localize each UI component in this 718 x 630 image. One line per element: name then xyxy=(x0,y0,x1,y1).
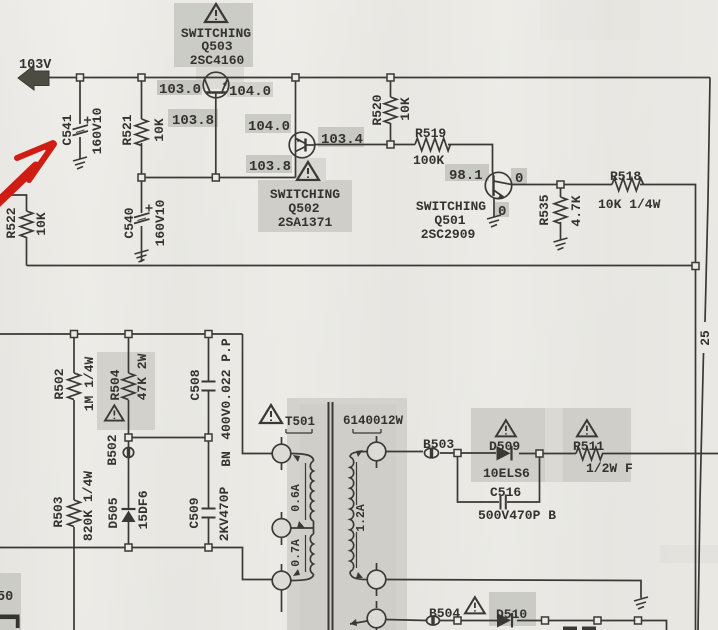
svg-text:R518: R518 xyxy=(610,169,641,184)
wire S3 stub xyxy=(350,621,367,624)
wire left input to R522 xyxy=(0,195,27,211)
wire B502 link y=437.5 xyxy=(129,437,209,439)
highlight box 103.8 (upper) xyxy=(168,109,218,127)
highlight box Q503 label xyxy=(174,3,253,67)
highlight box 103.0 xyxy=(157,80,202,95)
wire R521 branch top xyxy=(141,78,143,120)
node y334 at C508 xyxy=(205,331,212,338)
svg-text:Q503: Q503 xyxy=(201,39,232,54)
ground (R535) xyxy=(554,238,568,250)
svg-text:0: 0 xyxy=(498,204,506,220)
wire R504/D505 column xyxy=(128,334,130,373)
ground (C541) xyxy=(73,157,87,169)
svg-text:D509: D509 xyxy=(489,439,520,454)
transistor Q501 xyxy=(485,172,511,199)
svg-text:47K 2W: 47K 2W xyxy=(135,353,150,400)
wire S2 to ground xyxy=(386,580,641,599)
svg-text:10K: 10K xyxy=(34,212,49,236)
highlight box D510 xyxy=(489,592,536,626)
warning triangle (T501) xyxy=(260,405,282,423)
highlight box 103.4 xyxy=(318,127,364,147)
highlight box D509 / R511 xyxy=(471,408,631,482)
svg-text:820K 1/4W: 820K 1/4W xyxy=(81,471,96,541)
wire Q503 base lead xyxy=(215,98,217,178)
svg-text:10K: 10K xyxy=(152,118,167,142)
wire horizontal y=334 xyxy=(0,333,243,335)
diode D505 xyxy=(122,509,136,522)
node D510 right 2 xyxy=(594,617,601,624)
svg-text:C516: C516 xyxy=(490,485,521,500)
capacitor C541 (polarized) xyxy=(73,117,92,136)
resistor R535 xyxy=(554,197,567,224)
highlight box 104.0 (right of Q503) xyxy=(227,82,273,97)
pin P3 xyxy=(272,571,291,590)
node D509/C516 xyxy=(536,450,543,457)
wire Q502 collector lead xyxy=(295,78,297,134)
svg-text:103.4: 103.4 xyxy=(321,132,363,148)
svg-text:0: 0 xyxy=(515,171,523,187)
wire top rail 103V/104V xyxy=(48,77,710,79)
wire R520 stubs xyxy=(390,78,392,98)
pin S3 xyxy=(367,609,386,628)
wire long horizontal y=265.5 xyxy=(27,265,696,267)
highlight box 104.0 (Q502) xyxy=(245,114,291,133)
svg-text:0.7A: 0.7A xyxy=(290,539,303,567)
secondary winding (1.2A) xyxy=(350,452,367,458)
resistor R504 xyxy=(122,373,135,400)
node R520/R519 junction xyxy=(387,141,394,148)
svg-text:1.2A: 1.2A xyxy=(355,504,368,532)
node y547 at D505 xyxy=(125,544,132,551)
node Q503 base junction xyxy=(212,174,219,181)
node B503/C516 xyxy=(454,450,461,457)
svg-text:SWITCHING: SWITCHING xyxy=(416,199,486,214)
svg-text:Q502: Q502 xyxy=(288,201,319,216)
svg-text:0.6A: 0.6A xyxy=(290,484,303,512)
svg-text:2SC2909: 2SC2909 xyxy=(421,227,476,242)
node right bus junction xyxy=(692,263,699,270)
svg-text:100K: 100K xyxy=(413,153,444,168)
svg-text:R504: R504 xyxy=(108,369,123,400)
core xyxy=(328,402,330,630)
wire C540 branch xyxy=(141,178,143,214)
resistor R502 xyxy=(68,373,81,400)
wire R519 to Q501 base xyxy=(448,145,493,173)
svg-text:BN: BN xyxy=(219,451,234,467)
svg-text:R511: R511 xyxy=(573,439,604,454)
node y334 at R502 xyxy=(71,331,78,338)
svg-text:R522: R522 xyxy=(4,207,19,238)
node y437 at B502 xyxy=(125,434,132,441)
svg-text:103.0: 103.0 xyxy=(159,82,201,98)
svg-text:R520: R520 xyxy=(370,94,385,125)
svg-text:R502: R502 xyxy=(52,368,67,399)
red annotation arrow xyxy=(0,141,56,216)
svg-text:103.8: 103.8 xyxy=(172,113,214,129)
svg-text:D505: D505 xyxy=(106,497,121,528)
wire R502/R503 column xyxy=(73,334,75,373)
svg-text:D510: D510 xyxy=(496,607,527,622)
svg-text:160V10: 160V10 xyxy=(90,107,105,154)
diode D509 xyxy=(497,446,512,461)
svg-text:C541: C541 xyxy=(60,114,75,145)
resistor R522 xyxy=(20,211,33,238)
connector B502 xyxy=(123,448,133,458)
svg-text:4.7K: 4.7K xyxy=(569,195,584,226)
label brackets xyxy=(286,429,312,433)
wire base rail y=177.5 xyxy=(142,177,296,179)
wire Q502 base to R519 xyxy=(315,144,416,146)
wire to T501 pin1 xyxy=(243,334,273,454)
node y334 at R504 xyxy=(125,331,132,338)
primary winding lower (0.7A) xyxy=(313,528,315,534)
highlight box Q502 labels xyxy=(258,180,352,232)
svg-text:R503: R503 xyxy=(51,496,66,527)
warning triangle (Q503) xyxy=(205,4,227,22)
svg-text:103V: 103V xyxy=(19,58,52,73)
pin P1 xyxy=(272,444,291,463)
svg-text:500V470P B: 500V470P B xyxy=(478,508,556,523)
highlight box 103.8 (lower) xyxy=(246,155,292,173)
bottom edge cut components xyxy=(563,627,577,630)
highlight box B50x bottom-left xyxy=(0,573,21,630)
svg-text:104.0: 104.0 xyxy=(229,84,271,100)
wire Q501 collector to ground xyxy=(493,199,495,218)
svg-text:15DF6: 15DF6 xyxy=(136,490,151,529)
svg-text:Q501: Q501 xyxy=(434,213,465,228)
ground (Q501) xyxy=(487,215,501,227)
node on rail at Q502 xyxy=(292,74,299,81)
warning triangle (R511) xyxy=(577,420,597,436)
svg-text:B502: B502 xyxy=(105,434,120,465)
node R521/C540 junction xyxy=(138,174,145,181)
wire R535 stubs xyxy=(560,185,562,198)
svg-text:98.1: 98.1 xyxy=(449,168,483,184)
diode D510 xyxy=(497,613,512,628)
resistor R511 xyxy=(576,447,603,460)
resistor R521 xyxy=(135,119,148,146)
resistor R518 xyxy=(612,178,644,191)
svg-text:10K: 10K xyxy=(398,97,413,121)
svg-text:2SA1371: 2SA1371 xyxy=(278,215,333,230)
transistor Q503 xyxy=(203,72,229,98)
svg-text:C509: C509 xyxy=(187,497,202,528)
svg-text:1/2W F: 1/2W F xyxy=(586,461,633,476)
pin S1 xyxy=(367,442,386,461)
bottom-left cut connector bar xyxy=(0,615,20,629)
wire Q501 emitter to node xyxy=(512,184,612,186)
highlight box R504 xyxy=(97,352,155,430)
node y547 at C509 xyxy=(205,544,212,551)
capacitor C516 xyxy=(501,495,506,510)
wire R521 bottom to node xyxy=(141,143,143,178)
node y437 at C508 bottom xyxy=(205,434,212,441)
svg-text:103.8: 103.8 xyxy=(249,159,291,175)
node B504 xyxy=(454,617,461,624)
transistor Q502 xyxy=(289,132,315,158)
transformer T501 xyxy=(260,402,386,630)
capacitor C509 xyxy=(202,509,216,518)
highlight box 0 (below Q501) xyxy=(495,202,509,217)
svg-text:R519: R519 xyxy=(415,126,446,141)
svg-text:T501: T501 xyxy=(285,415,315,429)
warning triangle (R504) xyxy=(105,405,124,420)
measure bracket 1.2A xyxy=(356,462,358,568)
pin S2 xyxy=(367,570,386,589)
wire B504 row xyxy=(386,620,427,621)
node on rail at C541 xyxy=(77,74,84,81)
wire C516 loop xyxy=(458,454,500,503)
paper background xyxy=(0,0,1,1)
warning triangle (D510) xyxy=(465,597,485,613)
node D510 right 3 xyxy=(635,617,642,624)
svg-text:2KV470P: 2KV470P xyxy=(217,486,232,541)
svg-text:B504: B504 xyxy=(429,606,460,621)
node Q501/R535/R518 junction xyxy=(557,181,564,188)
svg-text:2SC4160: 2SC4160 xyxy=(190,53,245,68)
103V input arrow xyxy=(18,66,49,91)
node on rail at R521 xyxy=(138,74,145,81)
svg-text:SWITCHING: SWITCHING xyxy=(270,187,340,202)
svg-text:R535: R535 xyxy=(537,194,552,225)
pin P2 xyxy=(272,519,291,538)
primary winding upper (0.6A) xyxy=(291,454,314,462)
highlight box 98.1 xyxy=(445,164,489,181)
measure bracket 0.7A xyxy=(305,535,307,572)
capacitor C540 (polarized) xyxy=(134,205,153,224)
svg-text:C508: C508 xyxy=(188,369,203,400)
svg-text:160V10: 160V10 xyxy=(153,199,168,246)
wire R518 to right vertical xyxy=(640,185,696,630)
ground (S2 wire) xyxy=(634,597,648,609)
wire S1 to B503/D509/R511 xyxy=(386,451,423,453)
connector B504 xyxy=(427,616,440,625)
wire right vertical from top rail corner xyxy=(705,78,710,323)
svg-text:50: 50 xyxy=(0,590,13,605)
measure bracket 0.6A xyxy=(305,463,307,520)
warning triangle (Q502) xyxy=(297,162,319,180)
svg-text:10K 1/4W: 10K 1/4W xyxy=(598,197,661,212)
svg-text:C540: C540 xyxy=(122,207,137,238)
node D510 right 1 xyxy=(542,617,549,624)
winding arrows xyxy=(293,455,300,462)
wire R522 bottom xyxy=(26,237,28,266)
capacitor C508 xyxy=(202,382,216,391)
svg-text:1M 1/4W: 1M 1/4W xyxy=(82,356,97,411)
svg-text:B503: B503 xyxy=(423,437,454,452)
resistor R503 xyxy=(68,500,81,527)
wire bottom horizontal y=547.5 xyxy=(0,548,272,580)
svg-text:10ELS6: 10ELS6 xyxy=(483,466,530,481)
connector B503 xyxy=(425,448,439,458)
svg-text:R521: R521 xyxy=(120,114,135,145)
highlight box 0 (right of Q501) xyxy=(511,168,527,184)
wire C541 branch xyxy=(79,78,81,125)
svg-text:104.0: 104.0 xyxy=(248,119,290,135)
warning triangle (D509) xyxy=(496,420,516,436)
ground (C540 on wire) xyxy=(135,250,149,262)
svg-text:25: 25 xyxy=(698,330,713,346)
svg-text:6140012W: 6140012W xyxy=(343,414,404,428)
wire Q502 emitter lead xyxy=(295,158,297,178)
wire C508/C509 column xyxy=(208,334,210,381)
highlight box T501 area xyxy=(287,398,407,630)
node on rail at R520 xyxy=(387,74,394,81)
resistor R520 xyxy=(384,97,397,124)
resistor R519 xyxy=(415,138,450,151)
svg-text:400V0.022 P.P: 400V0.022 P.P xyxy=(219,338,234,440)
